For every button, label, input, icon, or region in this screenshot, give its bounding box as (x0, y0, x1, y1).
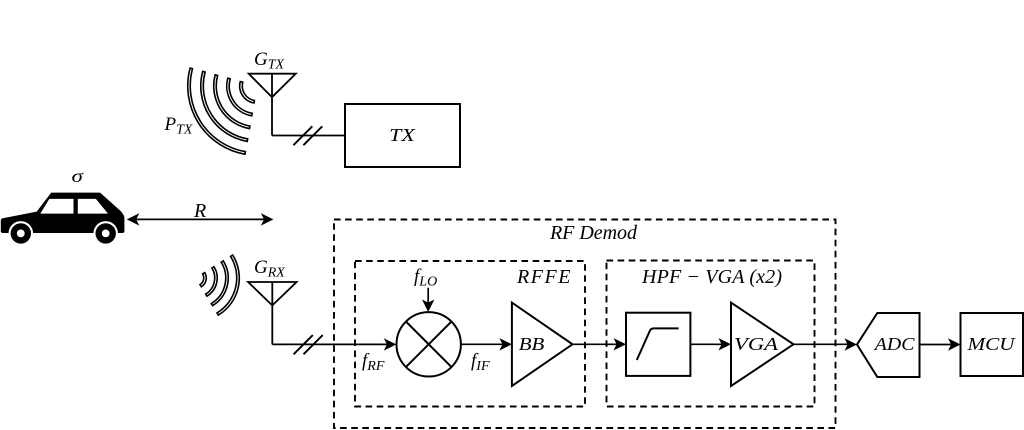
block MCU (961, 313, 1024, 376)
svg-text:TX: TX (389, 125, 416, 145)
wire VGA to ADC (794, 343, 849, 345)
wire RX antenna to mixer (272, 343, 387, 345)
antenna TX (249, 74, 296, 136)
TX radiated waves (188, 68, 255, 154)
wire BB to HPF (573, 343, 618, 345)
svg-text:R: R (193, 200, 206, 222)
dashed box RF Demod (334, 220, 836, 429)
block TX (345, 104, 460, 167)
mixer (397, 312, 461, 376)
LO arrow into mixer (427, 288, 429, 304)
svg-text:HPF − VGA (x2): HPF − VGA (x2) (641, 266, 782, 288)
dashed box HPF-VGA (607, 261, 815, 407)
block ADC (857, 313, 920, 377)
cable break RX (294, 335, 323, 354)
wire TX antenna to TX box (272, 135, 345, 137)
svg-text:VGA: VGA (734, 334, 779, 354)
RX incoming waves (200, 255, 239, 315)
car (1, 193, 125, 246)
wire HPF to VGA (690, 343, 722, 345)
antenna RX (248, 282, 297, 344)
svg-text:MCU: MCU (966, 334, 1015, 354)
dashed box RFFE (355, 261, 585, 407)
svg-text:σ: σ (72, 166, 85, 186)
svg-text:ADC: ADC (874, 334, 916, 354)
block HPF (626, 313, 690, 376)
range arrow R (136, 218, 265, 220)
wire mixer to BB (461, 343, 503, 345)
amplifier VGA (731, 303, 794, 386)
amplifier BB (512, 303, 573, 386)
svg-text:RF Demod: RF Demod (549, 222, 638, 244)
wire ADC to MCU (920, 344, 952, 346)
HPF response icon (637, 328, 679, 360)
svg-text:BB: BB (519, 334, 545, 354)
cable break TX (293, 126, 322, 145)
arrowhead into mixer (384, 338, 397, 350)
